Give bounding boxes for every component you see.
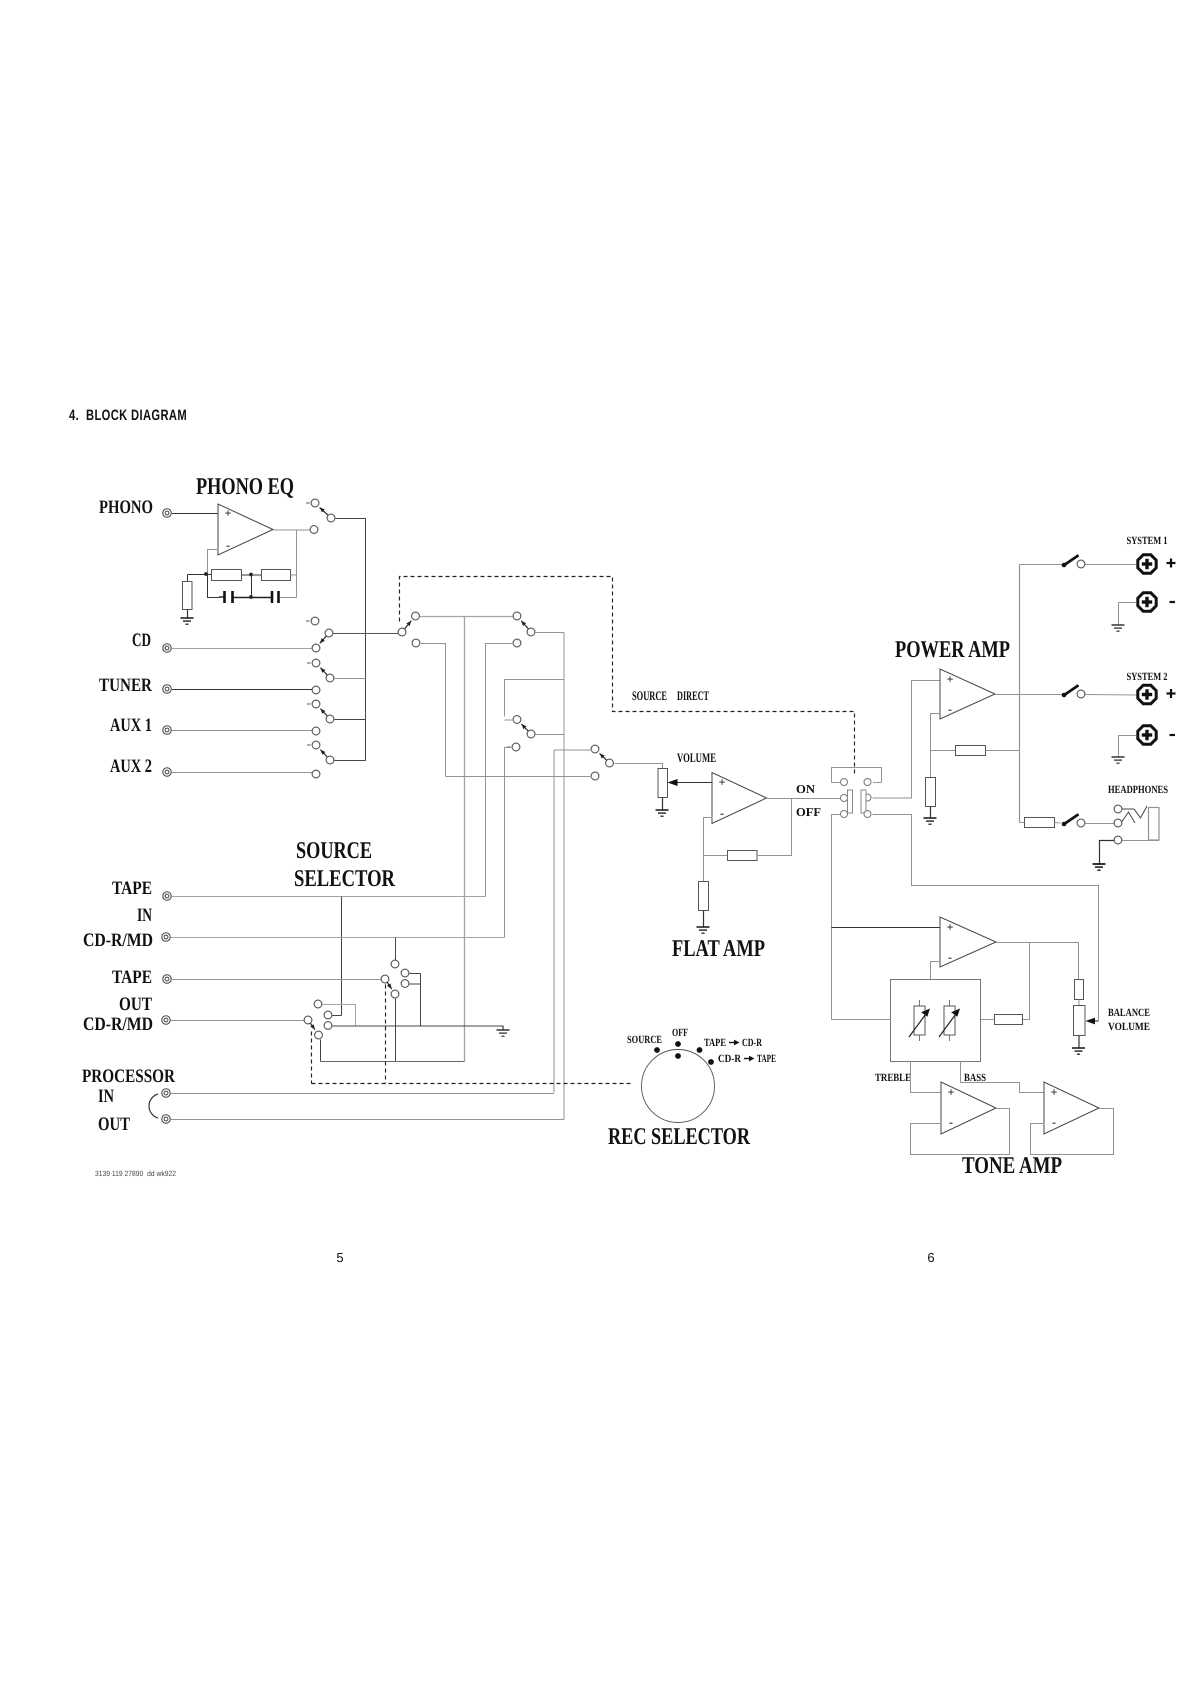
wire TUNER jack to switch (172, 689, 313, 691)
wire tip contact (1122, 806, 1147, 818)
relay bracket top (832, 768, 882, 783)
svg-text:POWER AMP: POWER AMP (895, 637, 1010, 663)
wire to system2 + terminal (1086, 694, 1137, 697)
wire relay to tone amp + input (832, 927, 941, 929)
wire ring contact (1122, 812, 1135, 823)
potentiometer balance volume (1074, 1006, 1086, 1036)
wire R7 to ground (930, 807, 932, 819)
jack PROCESSOR IN (162, 1089, 171, 1098)
wire S6 contacts to column (410, 974, 421, 1026)
resistor R2 phono eq feedback (262, 570, 291, 581)
op-amp U5 treble (941, 1082, 996, 1134)
wire S2 common to matrix switch A (334, 633, 399, 635)
svg-text:TUNER: TUNER (99, 675, 152, 696)
wire matrix top row (420, 616, 514, 618)
resistor R6 power amp feedback (956, 746, 986, 756)
wire SC upper contact stub (505, 719, 514, 721)
wire rec selector dashed left (311, 1032, 313, 1084)
wire S7 selected down (320, 1040, 322, 1062)
jack headphones sleeve contact (1114, 836, 1122, 844)
label rec TAPE to CD-R (704, 1037, 763, 1049)
wire U6 feedback loop (1031, 1109, 1114, 1155)
svg-text:SYSTEM 2: SYSTEM 2 (1127, 671, 1168, 683)
svg-text:-: - (720, 806, 724, 820)
terminal system2 - (1138, 726, 1156, 744)
label SOURCE DIRECT (632, 688, 709, 703)
svg-text:REC SELECTOR: REC SELECTOR (608, 1124, 751, 1150)
wire processor loop arc (149, 1094, 158, 1118)
wire C1 to C2 (234, 597, 273, 599)
resistor R1 phono eq feedback (212, 570, 242, 581)
wire bus to system1 switch (1020, 564, 1063, 566)
wire relay to power amp + (873, 681, 941, 799)
svg-text:IN: IN (137, 905, 152, 926)
op-amp U6 bass (1044, 1082, 1099, 1134)
wire volume wiper arrow (668, 779, 713, 786)
wire bass to U6 (961, 1062, 1045, 1093)
svg-text:6: 6 (927, 1250, 934, 1265)
wire U4 output to balance (997, 943, 1079, 980)
svg-text:5: 5 (336, 1250, 343, 1265)
svg-text:-: - (226, 538, 230, 552)
node SD lower contact (591, 772, 599, 780)
svg-text:+: + (1051, 1085, 1058, 1099)
svg-text:TAPE: TAPE (112, 878, 152, 899)
wire AUX1 jack to switch (172, 730, 313, 732)
svg-text:3139 119 27890 dd wk922: 3139 119 27890 dd wk922 (95, 1169, 176, 1178)
jack AUX 2 (163, 768, 172, 777)
potentiometer volume (658, 769, 668, 798)
svg-text:HEADPHONES: HEADPHONES (1108, 784, 1168, 796)
svg-text:OUT: OUT (119, 994, 152, 1015)
wire TAPE OUT jack to switch (172, 979, 382, 981)
jack CD-R/MD out (162, 1016, 171, 1025)
wire S7 contact1 to stub (323, 1005, 356, 1027)
wire R1 to R2 (242, 574, 262, 576)
capacitor C1 phono eq (219, 591, 233, 603)
variable resistor VR2 bass (939, 1000, 960, 1041)
wire R10 to balance pot (1078, 1000, 1080, 1006)
wire rec selector dashed rail (312, 1083, 633, 1085)
wire to shunt resistor (703, 856, 705, 882)
svg-text:PHONO: PHONO (99, 497, 153, 518)
label system2 minus (1170, 734, 1176, 736)
wire treble to U5 (911, 1062, 942, 1093)
wire R6 to bus (986, 750, 1020, 752)
svg-text:+: + (225, 506, 232, 520)
svg-text:TONE AMP: TONE AMP (962, 1153, 1062, 1179)
wire C2 to output node (280, 597, 297, 599)
wire relay off left to tone feedback (832, 815, 841, 1020)
node rec position SOURCE (654, 1047, 660, 1053)
svg-text:TREBLE: TREBLE (875, 1072, 911, 1084)
wire CD-R/MD IN row (171, 937, 505, 939)
ground headphones (1093, 864, 1106, 870)
jack TAPE IN (163, 892, 172, 901)
svg-text:+: + (948, 1085, 955, 1099)
jack headphones tip contact (1114, 805, 1122, 813)
resistor R10 balance series (1075, 980, 1084, 1000)
svg-text:SOURCE: SOURCE (632, 688, 667, 703)
label BALANCE VOLUME (1108, 1007, 1150, 1033)
svg-text:FLAT AMP: FLAT AMP (672, 936, 765, 962)
switch S1 PHONO select (306, 499, 335, 522)
wire U1 output (274, 529, 311, 531)
label system1 minus (1170, 601, 1176, 603)
wire TAPE IN drop to switch contact (341, 897, 343, 1016)
label system1 plus (1167, 559, 1176, 568)
wire sleeve to plug (1123, 840, 1160, 842)
variable resistor VR1 treble (909, 1000, 930, 1041)
svg-text:OFF: OFF (796, 805, 821, 819)
headphone plug body (1149, 808, 1160, 841)
op-amp U1 phono eq (218, 504, 273, 555)
wire SC lower to cdr-md-in column (505, 748, 513, 938)
wire S5 common to bus (335, 760, 366, 762)
ground system1 (1112, 625, 1125, 631)
node relay coil contact right (864, 779, 871, 786)
wire U3 output row (996, 694, 1063, 696)
wire record ground row (333, 1025, 504, 1027)
node rec position CDR-TAPE (708, 1059, 714, 1065)
wire SB common right (536, 632, 565, 634)
switch SB matrix (513, 612, 535, 636)
ground flat amp (697, 927, 710, 933)
label SOURCE SELECTOR (294, 838, 396, 892)
wire S4 common to bus (335, 719, 366, 721)
resistor R9 tone feedback (995, 1015, 1023, 1025)
svg-text:-: - (1052, 1115, 1056, 1129)
wire feedback row (188, 574, 212, 576)
wire SD upper contact row (554, 749, 592, 751)
ground power amp (924, 818, 937, 824)
jack AUX 1 (163, 726, 172, 735)
switch S7 cdr out record (304, 1016, 322, 1039)
jack TUNER (163, 685, 172, 694)
wire S3 common to bus (335, 678, 366, 680)
switch system1 speaker (1062, 555, 1085, 568)
wire U3 feedback (931, 714, 956, 751)
terminal system1 - (1138, 593, 1156, 611)
switch S5 AUX2 select (307, 741, 334, 778)
wire row2 right to tape-in column (486, 644, 514, 897)
svg-text:BALANCE: BALANCE (1108, 1007, 1150, 1019)
svg-text:VOLUME: VOLUME (1108, 1021, 1150, 1033)
node S6 right contacts (401, 969, 409, 987)
node SC lower contact (507, 746, 511, 748)
wire feedback to R3 (187, 575, 189, 582)
wire row2 to SD lower contact (446, 776, 592, 778)
svg-text:+: + (947, 672, 954, 686)
resistor R7 power amp shunt (926, 778, 936, 807)
svg-text:OFF: OFF (672, 1027, 688, 1039)
wire CD-R/MD IN drop (395, 938, 397, 961)
switch S2 CD select (306, 617, 333, 652)
wire rec out row (321, 1061, 465, 1063)
op-amp U4 tone amp input (940, 917, 996, 967)
svg-text:SYSTEM 1: SYSTEM 1 (1127, 535, 1168, 547)
svg-text:-: - (948, 702, 952, 716)
wire PROCESSOR OUT row (171, 1119, 564, 1121)
wire SD common to volume (615, 764, 663, 769)
svg-text:ON: ON (796, 782, 815, 796)
junction capacitor row (249, 595, 253, 599)
svg-text:DIRECT: DIRECT (677, 688, 709, 703)
ground phono eq (181, 618, 194, 624)
node bus source-select vertical (365, 634, 367, 761)
wire volume pot to ground (662, 798, 664, 811)
wire row2 left to column (421, 644, 446, 777)
svg-text:TAPE: TAPE (704, 1037, 726, 1049)
switch headphones (1062, 814, 1085, 827)
wire R2 to output node (291, 574, 297, 576)
jack PROCESSOR OUT (162, 1115, 171, 1124)
wire matrix column to rec out switch (464, 617, 466, 1062)
relay actuator bars (848, 790, 867, 813)
node relay common right (864, 794, 871, 801)
svg-text:IN: IN (98, 1086, 114, 1107)
resistor R4 flat amp feedback (728, 851, 758, 861)
wire TAPE IN row (172, 896, 486, 898)
wire CD jack to switch (172, 648, 313, 650)
resistor R3 phono eq shunt (183, 582, 193, 610)
wire R3 to ground (187, 610, 189, 619)
wire S6 selected contact down (395, 999, 397, 1062)
ground system2 (1112, 757, 1125, 763)
resistor R5 flat amp shunt (699, 882, 709, 911)
jack PHONO (163, 509, 172, 518)
wire bus to headphone resistor (1020, 822, 1025, 824)
wire into tone box left (832, 1019, 891, 1021)
svg-text:AUX 2: AUX 2 (110, 756, 152, 777)
op-amp U2 flat amp (712, 773, 767, 824)
node relay coil contact left (841, 779, 848, 786)
wire U5 feedback loop (911, 1109, 1010, 1155)
wire rec selector dashed mid (385, 985, 387, 1084)
node relay off right (864, 811, 871, 818)
svg-text:4. BLOCK DIAGRAM: 4. BLOCK DIAGRAM (69, 407, 187, 424)
label rec CD-R to TAPE (718, 1053, 776, 1065)
node rec position OFF (675, 1041, 681, 1047)
svg-text:PROCESSOR: PROCESSOR (82, 1066, 175, 1087)
svg-text:+: + (719, 775, 726, 789)
wire R8 to switch (1055, 822, 1061, 825)
ground balance (1072, 1048, 1085, 1054)
switch SD volume feed (591, 745, 613, 767)
wire output bus vertical (1019, 565, 1021, 823)
svg-text:CD: CD (132, 630, 151, 651)
wire vertical to processor out (563, 633, 565, 1120)
node tape out upper contact (391, 960, 399, 968)
svg-text:-: - (948, 950, 952, 964)
ground record row (497, 1026, 510, 1037)
wire sleeve to ground (1100, 841, 1115, 865)
wire balance wiper arrow (1086, 1018, 1099, 1025)
wire R5 to ground (703, 911, 705, 928)
wire SC common right (536, 734, 565, 736)
switch S6 tape out record (381, 975, 399, 998)
wire SB to SC upper (505, 680, 565, 717)
label TAPE IN (112, 878, 152, 926)
switch SC matrix (513, 716, 535, 738)
node row2 right contact (513, 639, 521, 647)
junction R1-R2 (249, 573, 253, 577)
wire R9 to tone box (981, 1019, 995, 1021)
switch SA matrix (398, 612, 419, 636)
junction feedback left (204, 572, 208, 576)
svg-text:CD-R: CD-R (742, 1037, 763, 1049)
terminal system1 + (1138, 555, 1156, 573)
svg-text:AUX 1: AUX 1 (110, 715, 152, 736)
switch system2 speaker (1062, 685, 1085, 698)
wire capacitor row left (208, 575, 220, 598)
wire to shunt resistor (930, 751, 932, 778)
wire U4 output branch to feedback resistor (1023, 943, 1030, 1020)
jack TAPE OUT (163, 975, 172, 984)
label system2 plus (1167, 689, 1176, 698)
wire U2 output to relay (767, 798, 841, 800)
jack CD-R/MD in (162, 933, 171, 942)
wire vertical to processor in (553, 750, 555, 1093)
label PROCESSOR IN OUT (82, 1066, 175, 1135)
svg-text:SELECTOR: SELECTOR (294, 866, 396, 892)
wire U1 output to feedback node (296, 530, 298, 598)
ground volume pot (656, 810, 669, 816)
wire U4 - input to tone network (931, 962, 941, 980)
wire U1 - input to feedback (208, 550, 219, 575)
svg-text:CD-R: CD-R (718, 1053, 742, 1065)
svg-text:CD-R/MD: CD-R/MD (83, 1014, 153, 1035)
rec selector knob (642, 1050, 715, 1123)
op-amp U3 power amp (940, 669, 995, 719)
jack headphones ring contact (1114, 819, 1122, 827)
wire junction R1R2 down to cap row (251, 575, 253, 598)
svg-text:CD-R/MD: CD-R/MD (83, 930, 153, 951)
wire system1 - to ground (1119, 603, 1137, 626)
svg-text:TAPE: TAPE (757, 1053, 776, 1065)
resistor R8 headphones (1025, 818, 1055, 828)
svg-text:VOLUME: VOLUME (677, 750, 716, 765)
label TAPE OUT (112, 967, 152, 1015)
wire S1 common to bus (336, 519, 366, 634)
node phono-out contact (310, 526, 318, 534)
switch S3 TUNER select (307, 659, 334, 694)
svg-text:OUT: OUT (98, 1114, 130, 1135)
svg-text:TAPE: TAPE (112, 967, 152, 988)
svg-text:SOURCE: SOURCE (296, 838, 372, 864)
node row2 left contact (412, 639, 420, 647)
tone control box (891, 980, 981, 1062)
wire SOURCE DIRECT dashed path (400, 577, 855, 777)
wire balance pot to ground (1078, 1036, 1080, 1049)
svg-text:-: - (949, 1115, 953, 1129)
wire system2 - to ground (1119, 736, 1137, 758)
switch S4 AUX1 select (307, 700, 334, 735)
jack CD (163, 644, 172, 653)
wire U2 feedback loop (704, 818, 728, 856)
node relay off left (841, 811, 848, 818)
node relay common left (841, 795, 848, 802)
terminal system2 + (1138, 685, 1156, 703)
wire relay off right to balance bypass (873, 815, 1099, 1022)
node S7 upper contacts (314, 1000, 332, 1029)
rec selector knob marker (675, 1053, 681, 1059)
wire to system1 + terminal (1086, 564, 1137, 566)
wire PROCESSOR IN row (171, 1093, 554, 1095)
node rec position TAPE-CDR (697, 1047, 703, 1053)
wire switch to headphone jack (1086, 823, 1115, 825)
wire CD-R/MD OUT jack to switch (171, 1020, 305, 1022)
wire AUX2 jack to switch (172, 772, 313, 774)
wire R4 to output node (757, 799, 792, 856)
svg-text:+: + (947, 920, 954, 934)
svg-text:PHONO EQ: PHONO EQ (196, 474, 294, 500)
wire PHONO jack to op-amp U1 + (172, 513, 219, 515)
svg-text:SOURCE: SOURCE (627, 1034, 662, 1046)
wire S7 contact2 to tape-in drop (333, 1015, 342, 1017)
capacitor C2 phono eq (272, 591, 279, 603)
